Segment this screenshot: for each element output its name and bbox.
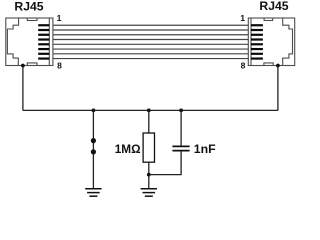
wire shield drop right [277,66,279,111]
wire bus to capacitor [180,110,182,146]
node junction bus capacitor branch [179,109,183,113]
connector J1 pins 1-8 (contact bars) [38,24,49,60]
contact point lower [91,149,96,154]
node junction resistor/capacitor bottom [147,173,151,177]
resistor R1 value 1MΩ [143,133,154,162]
node junction bus left branch [92,109,96,113]
connector J2 pins 1-8 (contact bars) [251,24,263,60]
node junction bus resistor branch [147,109,151,113]
svg-text:8: 8 [57,61,62,71]
svg-text:1: 1 [57,13,62,23]
svg-text:1MΩ: 1MΩ [115,142,141,156]
capacitor C1 value 1nF [172,146,189,150]
node junction on J1 shield [21,64,25,68]
svg-text:RJ45: RJ45 [14,0,43,14]
wire capacitor bottom link [149,151,181,175]
ground center [141,189,157,197]
svg-text:1nF: 1nF [194,142,216,156]
wire shield drop left [22,66,24,111]
connector J2 (right RJ45 jack, mirrored) [248,18,294,66]
wire left branch to ground [92,110,94,188]
cable wires pins 1-8 between connectors [53,25,248,58]
contact point upper [91,138,96,143]
wire shield bus [23,109,278,111]
ground left [85,189,101,197]
svg-text:1: 1 [240,13,245,23]
node junction on J2 shield [276,64,280,68]
wire bus to resistor [148,110,150,133]
connector J1 (left RJ45 jack) [6,18,53,66]
svg-text:RJ45: RJ45 [259,0,288,13]
wire resistor to ground [148,162,150,188]
svg-text:8: 8 [241,61,246,71]
